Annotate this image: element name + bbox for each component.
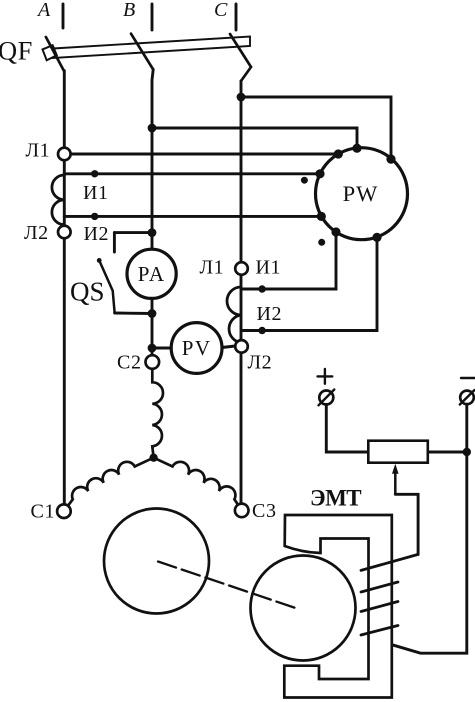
motor circle bbox=[104, 509, 209, 614]
brake coil stroke 3 bbox=[361, 602, 398, 612]
wire phase C vertical bbox=[240, 81, 243, 506]
wire phase B vertical lower bbox=[151, 295, 154, 360]
svg-text:С3: С3 bbox=[252, 500, 277, 522]
CT2 secondary winding arcs bbox=[227, 287, 241, 343]
svg-text:С1: С1 bbox=[31, 501, 56, 523]
PW polarity dot bottom bbox=[318, 239, 325, 246]
svg-text:A: A bbox=[36, 0, 51, 21]
node I1b dot bbox=[258, 285, 265, 292]
rheostat wiper arrow bbox=[392, 464, 399, 474]
voltmeter PV bbox=[171, 323, 222, 374]
svg-text:И2: И2 bbox=[84, 223, 110, 245]
node rheostat-right junction bbox=[463, 448, 471, 456]
wire minus down bbox=[465, 404, 468, 452]
node star point bbox=[149, 454, 157, 462]
wire rheostat right bbox=[429, 451, 467, 454]
terminal tick C bbox=[235, 4, 238, 30]
wire plus to rheostat bbox=[326, 405, 367, 453]
CT1 secondary winding arcs bbox=[52, 175, 64, 225]
svg-text:Л2: Л2 bbox=[24, 222, 49, 244]
CT1 terminal L2 bbox=[58, 226, 71, 239]
ammeter PA bbox=[127, 249, 176, 298]
wire I1 line to PW bbox=[64, 172, 320, 175]
PW terminal top bbox=[352, 144, 361, 153]
minus sign bbox=[461, 377, 475, 379]
plus sign bbox=[318, 369, 333, 384]
wire I1b to PW bottom-left bbox=[242, 232, 337, 289]
svg-text:PA: PA bbox=[138, 262, 166, 286]
switch QS top wire bbox=[114, 231, 152, 234]
CT2 terminal L2 bbox=[235, 340, 248, 353]
brake coil stroke 4 bbox=[361, 626, 398, 636]
PW terminal upper-left bbox=[334, 149, 343, 158]
svg-text:И1: И1 bbox=[256, 257, 282, 279]
CT2 terminal L1 bbox=[235, 262, 248, 275]
switch QS blade bbox=[99, 260, 114, 312]
node QS top junction bbox=[148, 228, 157, 237]
terminal tick B bbox=[151, 4, 154, 30]
rheostat R bbox=[368, 441, 428, 463]
svg-text:Л1: Л1 bbox=[26, 140, 51, 162]
svg-text:QF: QF bbox=[0, 36, 33, 66]
svg-text:ЭМТ: ЭМТ bbox=[310, 486, 361, 511]
PW terminal bottom-left bbox=[331, 227, 340, 236]
terminal C1 bbox=[57, 504, 71, 518]
svg-text:Л2: Л2 bbox=[248, 352, 273, 374]
PW polarity dot left bbox=[301, 177, 308, 184]
breaker QF blade pole C bbox=[230, 34, 251, 81]
breaker QF blade pole A bbox=[46, 37, 64, 71]
svg-text:Л1: Л1 bbox=[200, 257, 225, 279]
wire I2 line to PW bbox=[64, 215, 321, 218]
breaker QF actuator square bbox=[43, 45, 57, 60]
node C-PW junction bbox=[237, 93, 246, 102]
stator winding A leg bbox=[68, 458, 154, 506]
switch QS bottom wire bbox=[115, 312, 152, 315]
svg-text:С2: С2 bbox=[117, 352, 142, 374]
wire C to PW upper-right bbox=[241, 97, 391, 159]
svg-text:PV: PV bbox=[182, 336, 212, 360]
terminal tick A bbox=[62, 4, 65, 28]
svg-text:И2: И2 bbox=[257, 303, 283, 325]
wire phase A vertical bbox=[63, 71, 66, 506]
breaker QF linkage bar bbox=[53, 37, 250, 59]
PW terminal left bbox=[315, 169, 324, 178]
breaker QF blade pole B bbox=[131, 34, 153, 70]
plus terminal bbox=[319, 391, 333, 405]
PW terminal upper-right bbox=[386, 155, 395, 164]
stator winding B bbox=[152, 369, 163, 458]
minus terminal bbox=[460, 391, 474, 405]
brake pulley circle bbox=[251, 556, 356, 661]
brake coil stroke 1 (wiper connection) bbox=[361, 554, 418, 570]
wattmeter PW bbox=[316, 148, 408, 240]
wire I2b to PW bottom bbox=[242, 237, 378, 330]
svg-text:C: C bbox=[214, 0, 228, 21]
stator winding C leg bbox=[154, 458, 238, 505]
switch QS blade tip dot bbox=[97, 258, 102, 263]
shaft dashed line bbox=[158, 562, 300, 610]
terminal C2 bbox=[146, 355, 160, 369]
terminal C3 bbox=[235, 504, 249, 518]
svg-text:QS: QS bbox=[70, 277, 105, 307]
svg-text:B: B bbox=[123, 0, 135, 21]
wire PV to L2b bbox=[222, 346, 235, 348]
node I2b dot bbox=[258, 327, 265, 334]
svg-text:И1: И1 bbox=[83, 182, 109, 204]
svg-text:PW: PW bbox=[343, 181, 379, 206]
wire L1 line to PW bbox=[71, 153, 339, 156]
node B-PW junction bbox=[148, 124, 157, 133]
wire wiper to coil bbox=[395, 494, 418, 554]
CT1 terminal L1 bbox=[58, 148, 71, 161]
wire to PV bbox=[152, 347, 172, 350]
brake magnet yoke EMT bbox=[284, 515, 392, 698]
switch QS upper contact bbox=[113, 233, 116, 252]
wire right bus down bbox=[392, 452, 467, 653]
wire B to PW top bbox=[152, 128, 357, 148]
node I2 dot bbox=[91, 213, 98, 220]
node QS bottom junction bbox=[148, 309, 157, 318]
PW terminal bottom bbox=[372, 233, 381, 242]
PW terminal lower-left bbox=[317, 212, 326, 221]
brake coil stroke 2 bbox=[361, 582, 398, 592]
wire phase B vertical upper bbox=[152, 70, 153, 253]
node PV junction bbox=[148, 344, 157, 353]
node I1 dot bbox=[91, 170, 98, 177]
